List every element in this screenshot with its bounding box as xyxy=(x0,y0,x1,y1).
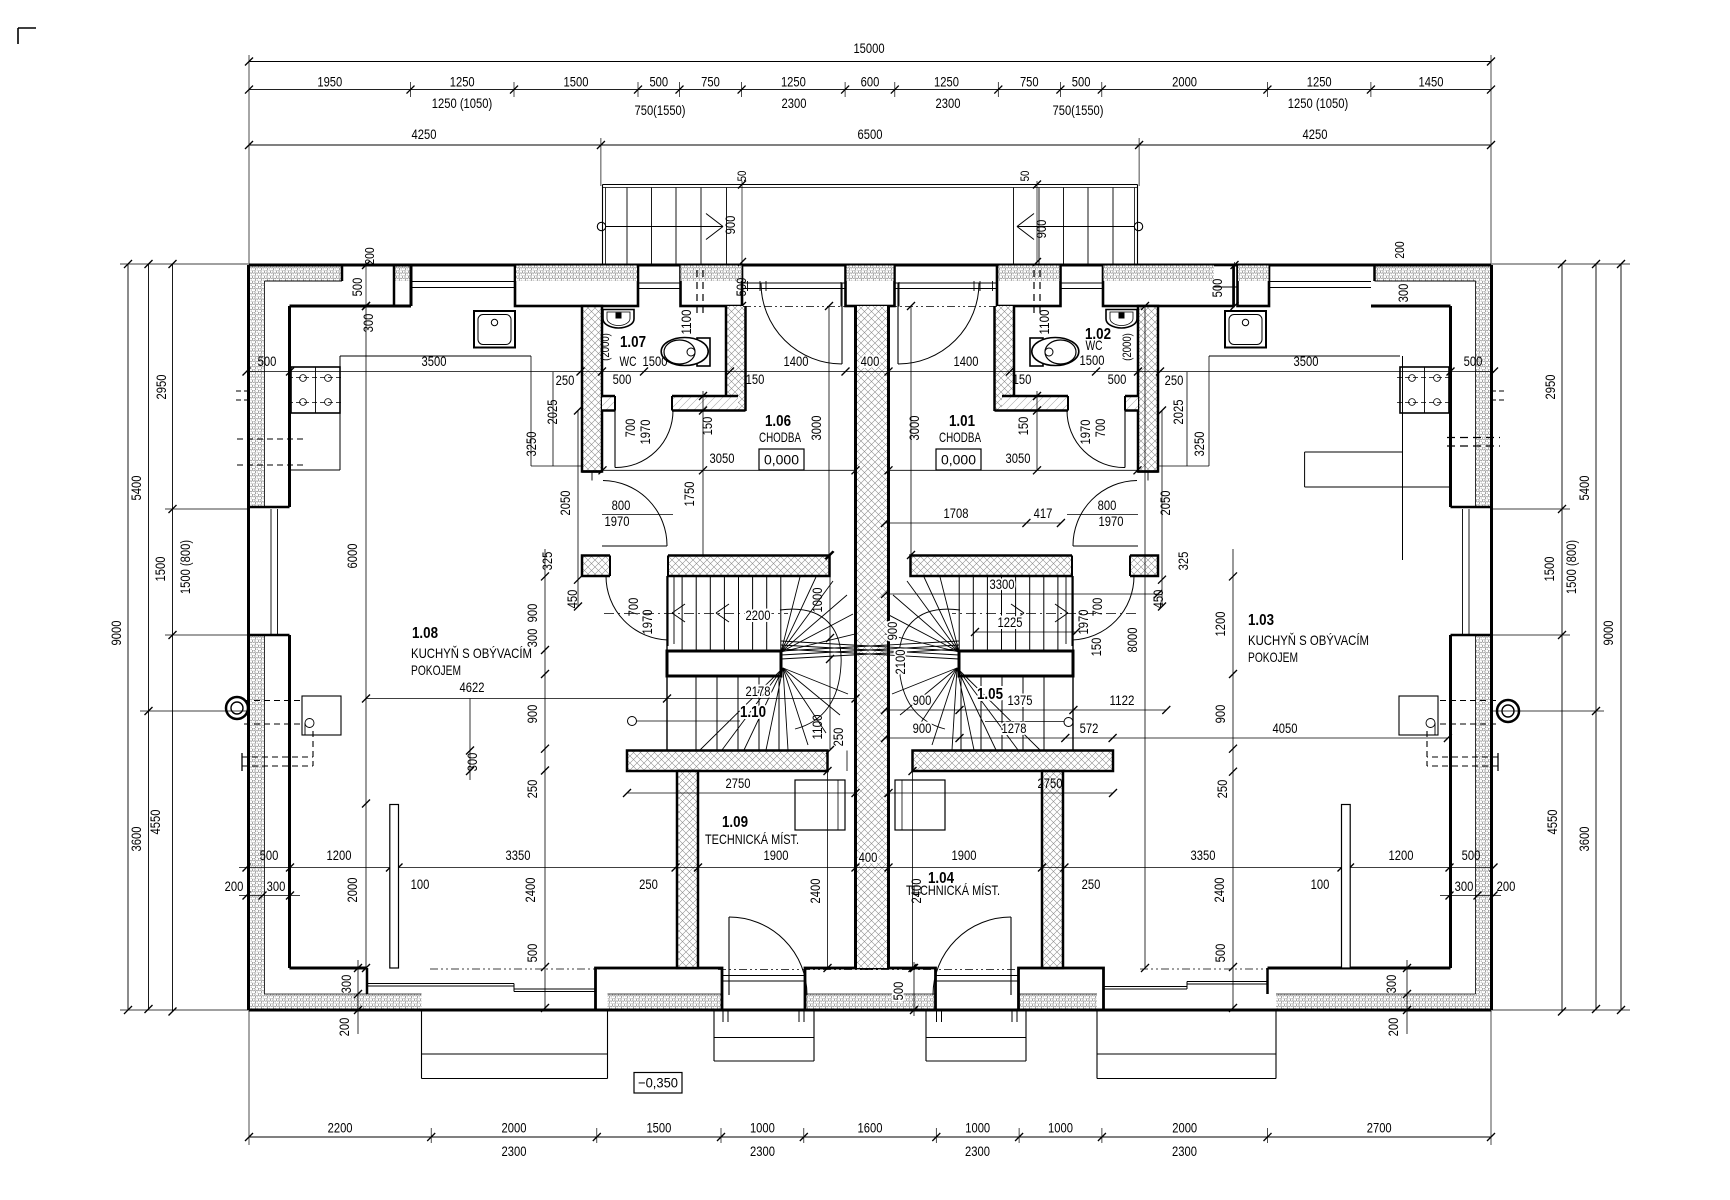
dim 8000 right xyxy=(1144,306,1146,968)
wall block bottom right xyxy=(1019,968,1104,1010)
svg-text:2000: 2000 xyxy=(1172,74,1197,90)
dim chain 2950/1500/4550 left xyxy=(172,264,174,1012)
svg-text:2300: 2300 xyxy=(936,95,961,111)
terrace door jamb right xyxy=(1266,968,1269,994)
pier small right outline xyxy=(1238,265,1270,306)
terrace steps left xyxy=(421,1010,423,1079)
dim 2050/325 right xyxy=(1161,411,1163,607)
svg-text:1500: 1500 xyxy=(646,1120,671,1136)
porch dim line right xyxy=(1036,181,1038,262)
porch dim line left xyxy=(741,181,743,306)
svg-text:400: 400 xyxy=(861,353,880,369)
wall outer edge left xyxy=(247,265,250,1010)
hall door leaf left xyxy=(602,545,667,547)
window W1 right (1250) xyxy=(1269,281,1371,283)
svg-text:2950: 2950 xyxy=(1542,374,1558,399)
wall WC bottom top edge xyxy=(602,395,615,398)
interior dim line y371 xyxy=(247,371,889,373)
wall inner face left lower xyxy=(288,635,291,968)
dim 2750 left xyxy=(627,792,856,794)
central wall hatch xyxy=(857,306,888,968)
dim 900/1375/1122 right xyxy=(885,709,1166,711)
svg-text:2950: 2950 xyxy=(153,374,169,399)
rear door swing right xyxy=(933,917,1011,995)
wall outer edge bottom xyxy=(249,1009,1492,1012)
wall WC/hall right xyxy=(995,306,1015,411)
stair door swing right xyxy=(1072,576,1134,640)
wall WC/hall left xyxy=(726,306,746,411)
axis line rear door left xyxy=(718,969,880,971)
stair overhead lines xyxy=(781,641,959,651)
svg-text:3600: 3600 xyxy=(1576,826,1592,851)
svg-text:100: 100 xyxy=(1311,876,1330,892)
counter return right kitchen xyxy=(1305,451,1403,453)
insulation inner line top-left corner xyxy=(265,280,343,282)
svg-text:KUCHYŇ S OBÝVACÍM: KUCHYŇ S OBÝVACÍM xyxy=(1248,632,1369,648)
svg-text:1375: 1375 xyxy=(1008,692,1033,708)
door dim leader xyxy=(1067,514,1138,516)
svg-text:700: 700 xyxy=(1092,418,1108,437)
svg-text:1.10: 1.10 xyxy=(740,704,766,721)
svg-text:250: 250 xyxy=(1165,372,1184,388)
stair winder line xyxy=(893,595,959,652)
boiler left xyxy=(795,780,845,830)
svg-text:500: 500 xyxy=(1212,943,1228,962)
svg-text:2400: 2400 xyxy=(807,878,823,903)
svg-text:250: 250 xyxy=(639,876,658,892)
stair winder line lower xyxy=(766,668,783,750)
svg-text:15000: 15000 xyxy=(853,40,884,56)
wall inner face top-right segment xyxy=(1371,305,1451,308)
svg-text:2700: 2700 xyxy=(1367,1120,1392,1136)
door D1 head jamb xyxy=(1147,472,1149,481)
svg-text:750(1550): 750(1550) xyxy=(635,102,686,118)
svg-text:3250: 3250 xyxy=(523,431,539,456)
svg-text:50: 50 xyxy=(1018,170,1032,181)
counter edge right kitchen xyxy=(1402,356,1404,560)
porch east edge xyxy=(1137,185,1139,266)
svg-text:5400: 5400 xyxy=(128,475,144,500)
WC door swing left xyxy=(615,411,673,468)
wall hall/kitchen left xyxy=(582,306,602,472)
svg-text:900: 900 xyxy=(722,215,738,234)
stair winder line xyxy=(781,595,847,652)
svg-text:1000: 1000 xyxy=(965,1120,990,1136)
svg-text:500: 500 xyxy=(649,74,668,90)
svg-text:POKOJEM: POKOJEM xyxy=(1248,649,1298,665)
terrace steps right xyxy=(1096,1010,1098,1079)
wall outer edge top xyxy=(249,264,1492,267)
svg-text:900: 900 xyxy=(524,603,540,622)
svg-text:2200: 2200 xyxy=(746,607,771,623)
sub chain 200/300 right xyxy=(1440,895,1501,897)
dim 2400 right-a xyxy=(912,771,914,968)
rear porch steps left xyxy=(713,1010,715,1061)
dim 3050 right xyxy=(889,469,1138,471)
hidden lines porch right xyxy=(1033,270,1035,318)
svg-text:−0,350: −0,350 xyxy=(638,1075,678,1091)
extension stubs bottom chain xyxy=(430,1128,432,1143)
svg-text:2200: 2200 xyxy=(328,1120,353,1136)
insulation hatch right wall lower xyxy=(1476,635,1492,1010)
dim line 9000 left xyxy=(127,264,129,1010)
svg-text:1970: 1970 xyxy=(637,419,653,444)
svg-text:3600: 3600 xyxy=(128,826,144,851)
rear porch steps right xyxy=(925,1010,927,1061)
svg-text:2000: 2000 xyxy=(1172,1120,1197,1136)
svg-text:700: 700 xyxy=(622,418,638,437)
axis line entry xyxy=(743,306,846,308)
svg-text:4550: 4550 xyxy=(147,809,163,834)
svg-text:6500: 6500 xyxy=(858,126,883,142)
svg-text:1708: 1708 xyxy=(944,505,969,521)
WC door swing right xyxy=(1067,411,1125,468)
dim chain 2950/1500/4550 right xyxy=(1561,264,1563,1012)
svg-text:1250: 1250 xyxy=(450,74,475,90)
svg-text:2400: 2400 xyxy=(1211,877,1227,902)
wall inner face bottom seg5 xyxy=(1268,967,1451,970)
insulation hatch top central pier xyxy=(847,266,894,282)
svg-text:600: 600 xyxy=(861,74,880,90)
pier 750 right outline xyxy=(997,265,1061,306)
dim line 4250-6500-4250 xyxy=(249,144,1491,146)
svg-text:500: 500 xyxy=(260,847,279,863)
svg-text:1122: 1122 xyxy=(1110,692,1135,708)
svg-text:500: 500 xyxy=(1108,371,1127,387)
axis line entry xyxy=(895,306,998,308)
insulation inner line bottom wall xyxy=(265,993,422,995)
stair landing bar xyxy=(959,651,1073,676)
extension lines outer corners xyxy=(248,55,250,265)
dim 2750 right xyxy=(889,792,1114,794)
dim chain x1233 right xyxy=(1232,549,1234,1008)
svg-text:1500: 1500 xyxy=(152,556,168,581)
window jambs left wall xyxy=(249,506,290,509)
svg-text:100: 100 xyxy=(411,876,430,892)
wall sleeve symbol right xyxy=(1497,700,1519,722)
door dim leader xyxy=(602,514,673,516)
flue wall cap xyxy=(241,753,243,771)
svg-text:1400: 1400 xyxy=(784,353,809,369)
dim chain (top, second row) xyxy=(249,89,1491,91)
svg-text:300: 300 xyxy=(267,878,286,894)
svg-text:325: 325 xyxy=(539,551,555,570)
svg-text:KUCHYŇ S OBÝVACÍM: KUCHYŇ S OBÝVACÍM xyxy=(411,645,532,661)
pier 750 left outline xyxy=(681,265,743,306)
stove right xyxy=(1399,696,1438,735)
svg-text:4622: 4622 xyxy=(460,679,485,695)
svg-text:900: 900 xyxy=(1033,219,1049,238)
svg-text:500: 500 xyxy=(733,277,749,296)
stair winder line lower xyxy=(932,668,957,745)
svg-text:CHODBA: CHODBA xyxy=(939,429,981,445)
svg-text:800: 800 xyxy=(612,497,631,513)
svg-text:500: 500 xyxy=(349,277,365,296)
door frame stubs left rear door xyxy=(722,1010,724,1022)
svg-text:300: 300 xyxy=(1455,878,1474,894)
svg-text:1970: 1970 xyxy=(1077,419,1093,444)
screen wall right xyxy=(1342,805,1351,969)
terrace slide door left xyxy=(368,983,514,985)
svg-text:200: 200 xyxy=(225,878,244,894)
insulation hatch top pier 750 right xyxy=(999,266,1060,282)
svg-text:1900: 1900 xyxy=(952,847,977,863)
extension lines bottom corners xyxy=(248,1010,250,1145)
svg-text:8000: 8000 xyxy=(1124,627,1140,652)
svg-text:WC: WC xyxy=(620,353,637,369)
insulation inner line top-right corner xyxy=(1373,265,1376,281)
wall inner face left upper xyxy=(288,306,291,507)
stair walk curve xyxy=(780,609,841,729)
leader 1.10 xyxy=(628,717,637,726)
svg-text:50: 50 xyxy=(735,170,749,181)
insulation hatch top-left corner xyxy=(249,266,343,282)
stair door leaf left xyxy=(667,576,669,646)
stair winder line lower xyxy=(783,668,840,715)
dim 300 stair wall left xyxy=(469,699,471,781)
dim 3000 right xyxy=(910,306,912,555)
washbasin left xyxy=(603,310,634,329)
WC door jambs xyxy=(614,396,616,411)
svg-text:POKOJEM: POKOJEM xyxy=(411,662,461,678)
door frame stubs right rear door xyxy=(1011,1010,1013,1022)
svg-text:5400: 5400 xyxy=(1576,475,1592,500)
svg-text:TECHNICKÁ MÍST.: TECHNICKÁ MÍST. xyxy=(705,831,799,847)
stair winder line lower xyxy=(957,668,1040,750)
terrace slide door right xyxy=(1104,986,1188,988)
svg-text:1900: 1900 xyxy=(764,847,789,863)
dim 3050 left xyxy=(603,469,856,471)
svg-text:2050: 2050 xyxy=(1157,490,1173,515)
insulation hatch right wall upper xyxy=(1476,266,1492,508)
extension lines right chains xyxy=(1492,263,1630,265)
svg-text:1000: 1000 xyxy=(809,587,825,612)
svg-text:300: 300 xyxy=(464,752,480,771)
stair winder line lower xyxy=(957,668,974,750)
svg-text:300: 300 xyxy=(1383,974,1399,993)
dim 2050/325 left xyxy=(577,411,579,607)
stair winder line xyxy=(924,577,959,652)
extension lines left chains xyxy=(120,263,248,265)
svg-text:500: 500 xyxy=(613,371,632,387)
stair winder line lower xyxy=(914,668,957,733)
stair winder line xyxy=(940,577,959,652)
svg-text:1.05: 1.05 xyxy=(977,686,1003,703)
dim 1225 right xyxy=(975,631,1076,633)
svg-text:1100: 1100 xyxy=(1036,309,1052,334)
svg-text:1450: 1450 xyxy=(1419,74,1444,90)
dim 500 central bottom xyxy=(913,962,915,1016)
stair winder line lower xyxy=(722,668,783,750)
stair winder line lower xyxy=(957,668,996,750)
svg-text:150: 150 xyxy=(1088,637,1104,656)
axis line terrace left xyxy=(430,968,600,970)
svg-text:1970: 1970 xyxy=(1099,513,1124,529)
stair winder line lower xyxy=(783,668,826,733)
insulation hatch bottom wall mid-west xyxy=(608,994,723,1010)
insulation hatch top pier 1500 left xyxy=(516,266,637,282)
svg-text:1.01: 1.01 xyxy=(949,413,975,430)
svg-text:150: 150 xyxy=(1013,371,1032,387)
hall door swing left xyxy=(603,481,667,547)
dim line 150/1750 left xyxy=(702,391,704,555)
svg-text:500: 500 xyxy=(1464,353,1483,369)
svg-text:4250: 4250 xyxy=(1303,126,1328,142)
wall outer edge right xyxy=(1490,265,1493,1010)
dim line y867 left xyxy=(239,867,889,869)
wall hall/kitchen right xyxy=(1138,306,1158,472)
svg-text:500: 500 xyxy=(1072,74,1091,90)
svg-text:200: 200 xyxy=(1497,878,1516,894)
svg-text:500: 500 xyxy=(1462,847,1481,863)
stair winder line xyxy=(885,634,959,652)
svg-text:2050: 2050 xyxy=(557,490,573,515)
dim 300/200 left xyxy=(357,960,359,1034)
svg-text:200: 200 xyxy=(1392,241,1407,258)
svg-text:572: 572 xyxy=(1080,720,1099,736)
WC door jambs xyxy=(1124,396,1126,411)
dim line 15000 xyxy=(249,61,1491,63)
svg-text:2300: 2300 xyxy=(502,1143,527,1159)
dim 2400 left-b xyxy=(827,771,829,968)
svg-text:2100: 2100 xyxy=(892,649,908,674)
entry door swing right xyxy=(898,283,979,364)
walk line chevrons xyxy=(672,604,685,613)
wall WC bottom right xyxy=(1002,396,1138,411)
svg-text:2750: 2750 xyxy=(1038,775,1063,791)
svg-text:200: 200 xyxy=(1385,1017,1401,1036)
insulation hatch top-right corner xyxy=(1375,266,1491,282)
dim chain 5400/3600 left xyxy=(148,264,150,1009)
svg-text:500: 500 xyxy=(258,353,277,369)
svg-text:1.07: 1.07 xyxy=(620,334,646,351)
rear door leaf right xyxy=(1010,917,1012,995)
svg-text:1000: 1000 xyxy=(1048,1120,1073,1136)
svg-text:1250: 1250 xyxy=(1307,74,1332,90)
walk arrow left porch xyxy=(597,222,605,230)
dim 4622/2178 xyxy=(366,698,856,700)
svg-text:1600: 1600 xyxy=(858,1120,883,1136)
stair door jambs xyxy=(609,556,611,577)
stair landing bar xyxy=(667,651,781,676)
insulation hatch bottom wall west xyxy=(265,994,422,1010)
svg-text:1250: 1250 xyxy=(781,74,806,90)
svg-text:2000: 2000 xyxy=(344,877,360,902)
svg-text:3500: 3500 xyxy=(1294,353,1319,369)
wall 500 dim right xyxy=(1234,262,1236,306)
stair winder line lower xyxy=(783,668,788,750)
cooktop right xyxy=(1400,367,1449,413)
level box -0,350 xyxy=(634,1073,682,1094)
svg-text:1.06: 1.06 xyxy=(765,413,791,430)
wall block bottom left xyxy=(596,968,723,1010)
svg-text:WC: WC xyxy=(1086,337,1103,353)
sink left xyxy=(474,311,515,348)
dim ext lines kitchen right xyxy=(1208,356,1210,466)
stair winder line lower xyxy=(700,668,783,750)
rear door swing left xyxy=(729,917,807,995)
svg-text:1200: 1200 xyxy=(327,847,352,863)
stair walk line xyxy=(604,613,788,615)
svg-text:1100: 1100 xyxy=(678,309,694,334)
rear door leaf left xyxy=(728,917,730,995)
extension lines porch corners xyxy=(600,138,602,186)
svg-text:4550: 4550 xyxy=(1544,809,1560,834)
porch west edge xyxy=(602,185,604,266)
stair walk curve xyxy=(899,609,960,729)
svg-text:500: 500 xyxy=(890,981,906,1000)
svg-text:1200: 1200 xyxy=(1389,847,1414,863)
dim 3000 left xyxy=(828,306,830,555)
svg-text:2300: 2300 xyxy=(1172,1143,1197,1159)
stove connection dashes xyxy=(244,700,302,702)
dim 900/1278/572/4050 right xyxy=(885,737,1448,739)
svg-text:1250: 1250 xyxy=(934,74,959,90)
porch steps left flight xyxy=(626,188,628,266)
svg-text:900: 900 xyxy=(524,704,540,723)
rear door threshold right xyxy=(936,975,1019,977)
stair overhead lines xyxy=(781,641,959,651)
stair walk line xyxy=(952,613,1136,615)
small gap line right xyxy=(1214,286,1238,288)
svg-text:1278: 1278 xyxy=(1002,720,1027,736)
svg-text:3300: 3300 xyxy=(990,576,1015,592)
svg-text:1500: 1500 xyxy=(564,74,589,90)
stair winder line xyxy=(781,577,816,652)
svg-text:TECHNICKÁ MÍST.: TECHNICKÁ MÍST. xyxy=(906,882,1000,898)
WC door leaf left xyxy=(614,411,616,468)
flue wall cap xyxy=(1497,753,1499,771)
wall inner face right upper xyxy=(1449,306,1452,507)
dim line y867 right xyxy=(889,867,1495,869)
toilet left xyxy=(697,338,710,366)
porch landing edges xyxy=(726,188,728,266)
pier 2000 right outline xyxy=(1103,265,1234,306)
svg-text:2300: 2300 xyxy=(782,95,807,111)
svg-text:250: 250 xyxy=(1082,876,1101,892)
stair winder line lower xyxy=(900,668,957,715)
wall inner face top-left segment xyxy=(290,305,412,308)
insulation hatch bottom wall mid-east xyxy=(1019,994,1098,1010)
washbasin right xyxy=(1106,310,1137,329)
WC door leaf right xyxy=(1124,411,1126,468)
svg-text:400: 400 xyxy=(859,849,878,865)
svg-text:6000: 6000 xyxy=(344,543,360,568)
svg-text:(2000): (2000) xyxy=(598,333,612,361)
svg-text:9000: 9000 xyxy=(108,620,124,645)
svg-text:300: 300 xyxy=(338,974,354,993)
insulation inner line left wall xyxy=(264,281,266,507)
dim line 150 right xyxy=(1036,391,1038,470)
svg-text:750: 750 xyxy=(1020,74,1039,90)
stair winder line lower xyxy=(957,668,1018,750)
stove flue dashed xyxy=(1426,731,1428,766)
svg-text:1500 (800): 1500 (800) xyxy=(1563,540,1579,594)
svg-text:250: 250 xyxy=(556,372,575,388)
svg-text:900: 900 xyxy=(913,692,932,708)
central wall faces xyxy=(854,306,857,968)
svg-text:4050: 4050 xyxy=(1273,720,1298,736)
insulation hatch top pier 2000 right xyxy=(1104,266,1215,282)
wall inner face right lower xyxy=(1449,635,1452,968)
wall WC bottom bottom edge xyxy=(602,409,615,412)
cooktop left xyxy=(291,367,340,413)
door D1 head jamb xyxy=(591,472,593,481)
wall 500 dim left xyxy=(365,262,367,306)
wall block bottom centre xyxy=(805,968,936,1010)
sidelight window right (500) xyxy=(1061,282,1103,284)
svg-text:200: 200 xyxy=(336,1017,352,1036)
